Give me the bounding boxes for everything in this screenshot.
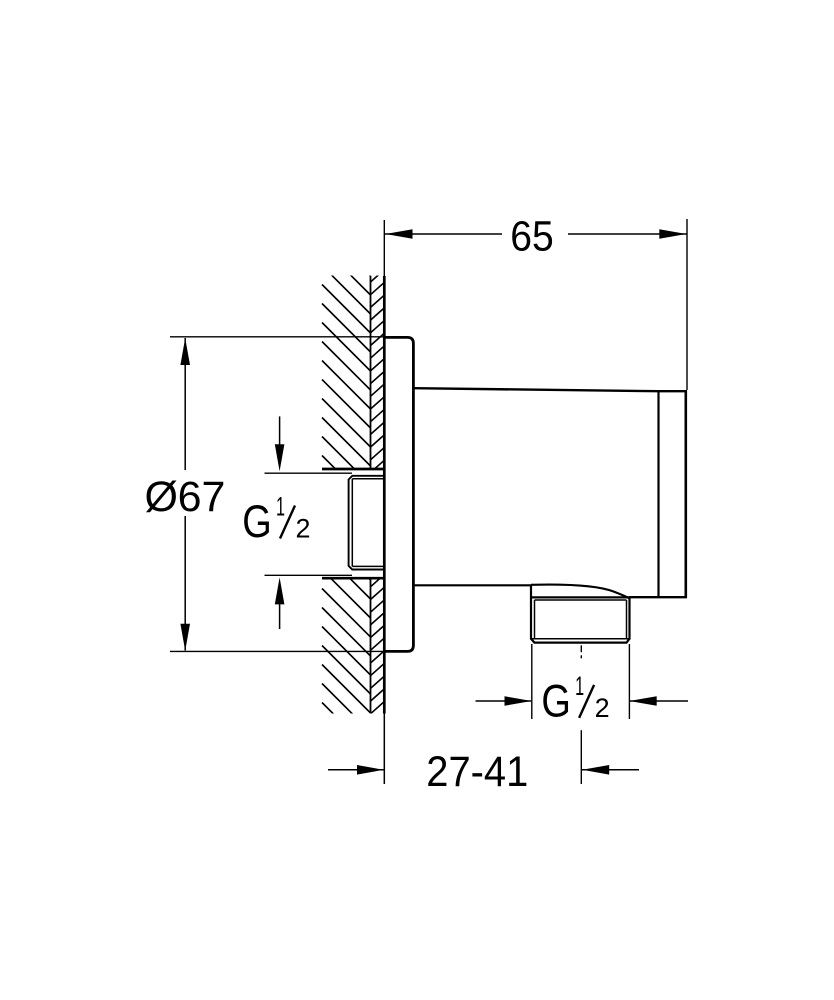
socket depth lower arrow <box>279 603 281 629</box>
svg-text:Ø: Ø <box>145 473 178 521</box>
dimension 27-41 lines <box>328 769 639 771</box>
body top edge <box>414 388 687 391</box>
dimension 67 extension lines <box>170 337 384 652</box>
dimension 65 arrows <box>386 229 413 239</box>
dimension 65 line <box>385 233 687 235</box>
body right edge <box>684 391 687 598</box>
wall pocket top edge <box>322 468 384 471</box>
inlet socket inner lines <box>352 479 384 567</box>
socket depth lower extension line <box>265 574 353 576</box>
svg-text:G: G <box>541 675 571 726</box>
svg-text:27-41: 27-41 <box>426 748 528 796</box>
wall inner boundary line <box>370 276 372 713</box>
outlet nipple top edge <box>531 596 630 598</box>
svg-text:67: 67 <box>178 473 226 521</box>
wall face extension line lower <box>383 714 385 785</box>
svg-text:2: 2 <box>595 693 610 723</box>
wall hatch fine <box>371 270 385 739</box>
flange escutcheon <box>384 337 413 651</box>
outlet nipple inner lines <box>531 600 630 639</box>
body bottom left edge <box>414 584 531 586</box>
dimension 27-41 arrows <box>357 765 384 775</box>
svg-text:1: 1 <box>575 671 584 701</box>
dimension 65 extension lines <box>384 219 687 390</box>
dimension 67 arrows <box>180 338 190 365</box>
svg-text:2: 2 <box>296 514 311 544</box>
inlet socket G1/2 outer outline <box>349 476 384 570</box>
svg-text:65: 65 <box>510 212 554 260</box>
socket depth upper extension line <box>265 472 353 474</box>
body bottom right edge <box>629 596 687 598</box>
outlet G1/2 extension lines <box>532 644 630 719</box>
outlet fairing curve <box>531 585 630 599</box>
svg-text:1: 1 <box>276 492 285 522</box>
outlet centerline <box>580 645 582 784</box>
outlet nipple outline <box>531 585 630 642</box>
svg-text:G: G <box>242 496 271 547</box>
dimension 67 line <box>184 338 186 651</box>
outlet G1/2 dimension lines <box>476 700 689 702</box>
socket depth upper arrow <box>279 416 281 446</box>
wall hatch coarse <box>322 171 371 771</box>
wall pocket bottom edge <box>322 577 385 580</box>
outlet G1/2 arrows <box>505 696 532 706</box>
end cap inner line <box>657 391 659 596</box>
wall face line <box>383 276 386 714</box>
